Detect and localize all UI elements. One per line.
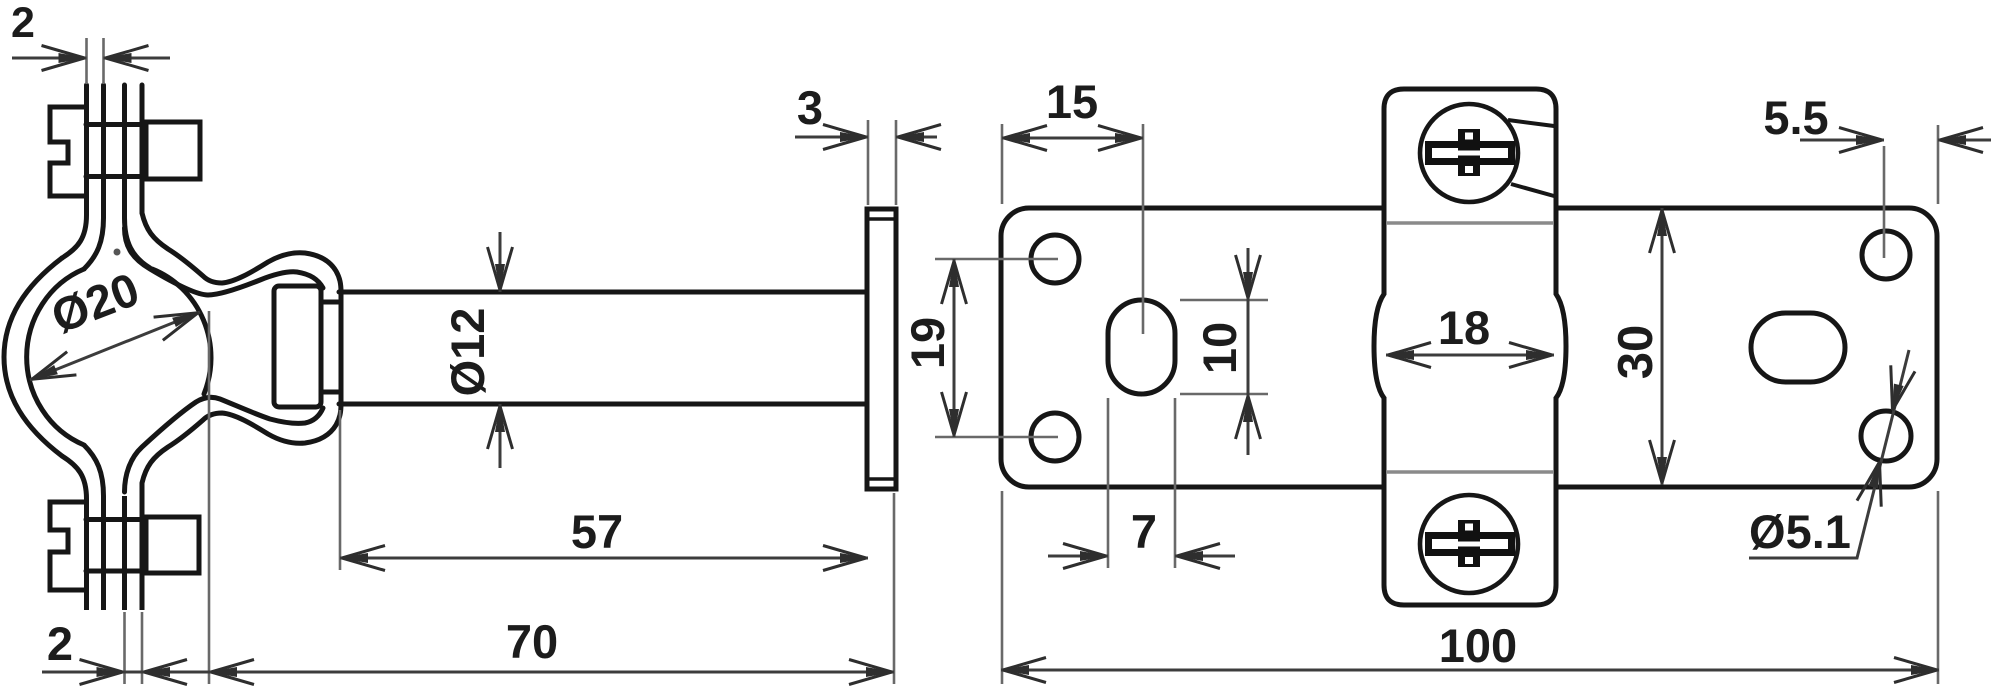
- plate 100x30: [1001, 208, 1937, 487]
- svg-text:18: 18: [1438, 301, 1490, 354]
- loop bottom inner line B': [125, 397, 324, 492]
- dim line: 7: [1048, 555, 1235, 558]
- dim line: 30: [1661, 208, 1664, 485]
- dim line: 2 bottom + 70: [42, 671, 894, 674]
- dim line: 100: [1001, 669, 1939, 672]
- dim line: 5.5: [1800, 139, 1991, 142]
- svg-text:30: 30: [1609, 325, 1663, 380]
- pipe circle Ø20 inner (left arc): [27, 269, 84, 445]
- dim line: 15: [1002, 137, 1143, 140]
- Ø5.1: [1880, 365, 1915, 415]
- top screw diagonals: [1508, 120, 1554, 196]
- pipe circle Ø20 inner (right arc): [152, 269, 211, 394]
- dim line: 18: [1386, 354, 1554, 357]
- 3: [823, 125, 868, 150]
- svg-text:100: 100: [1439, 619, 1517, 672]
- dim line: 19: [953, 259, 956, 437]
- left slot 7x10: [1108, 300, 1175, 394]
- dim line: 2 top: [12, 57, 170, 60]
- vertical clamp strap 18 wide: [1374, 89, 1566, 605]
- svg-text:15: 15: [1046, 75, 1098, 128]
- 5.5: [1839, 128, 1884, 153]
- right oval: [1751, 313, 1845, 382]
- rod Ø12: [339, 292, 867, 404]
- collar lines: [321, 302, 339, 392]
- dim line: 10: [1247, 248, 1250, 455]
- svg-text:Ø5.1: Ø5.1: [1749, 505, 1851, 558]
- rod end cap: [339, 292, 344, 404]
- svg-text:3: 3: [797, 81, 823, 134]
- 30: [1650, 208, 1675, 253]
- right holes: [1862, 231, 1910, 279]
- Ø12: [488, 247, 513, 292]
- dim line: 3: [795, 136, 937, 139]
- strap bottom verticals: [62, 456, 87, 610]
- svg-text:19: 19: [901, 317, 954, 369]
- 10: [1236, 255, 1261, 300]
- 19: [942, 259, 967, 304]
- top bolt shaft: [86, 125, 146, 177]
- gray fold lines inside strap: [1386, 223, 1554, 472]
- 18: [1386, 343, 1431, 368]
- screws: [1420, 104, 1518, 202]
- dim line: 57: [340, 557, 868, 560]
- 57: [340, 546, 385, 571]
- loop bottom outer line A': [142, 404, 341, 483]
- svg-text:7: 7: [1131, 505, 1157, 558]
- 15: [1002, 126, 1047, 151]
- dim line: Ø20: [30, 312, 200, 380]
- socket rectangle: [274, 286, 321, 407]
- bottom bolt head: [50, 502, 86, 590]
- svg-text:Ø12: Ø12: [441, 308, 494, 397]
- bottom nut: [146, 517, 199, 573]
- strap top verticals: [62, 85, 87, 258]
- small dot on pipe top: [114, 249, 121, 256]
- dim line: Ø12: [499, 232, 502, 468]
- svg-text:57: 57: [571, 505, 623, 558]
- 7: [1063, 544, 1108, 569]
- svg-text:2: 2: [47, 617, 73, 670]
- left holes Ø5.1: [1031, 235, 1079, 283]
- 2 top: [42, 46, 87, 71]
- loop top inner line B: [125, 228, 324, 295]
- outer band left arc: [4, 258, 62, 456]
- 100: [1001, 658, 1046, 683]
- svg-text:2: 2: [11, 0, 35, 47]
- svg-text:70: 70: [506, 615, 558, 668]
- flange plate 3mm: [867, 209, 896, 489]
- svg-text:10: 10: [1193, 322, 1246, 374]
- svg-text:5.5: 5.5: [1763, 91, 1828, 144]
- top bolt head: [50, 107, 86, 196]
- top nut: [146, 122, 200, 179]
- 70: [209, 660, 254, 685]
- 2 bottom: [80, 660, 125, 685]
- Ø20: [25, 352, 76, 392]
- bottom bolt shaft: [86, 520, 146, 572]
- loop top outer line A: [142, 213, 341, 292]
- dim: Ø5.1 leader: [1749, 350, 1909, 558]
